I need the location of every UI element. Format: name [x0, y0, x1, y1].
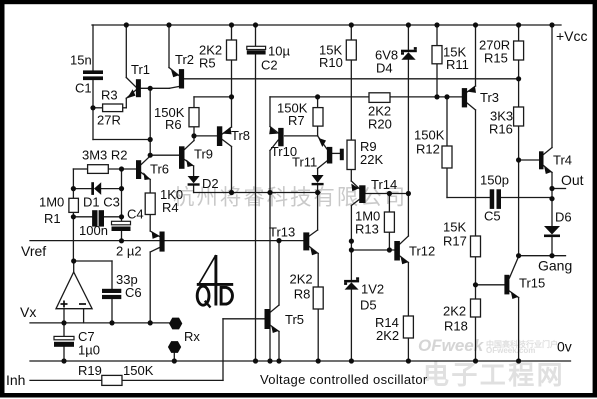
svg-text:Tr4: Tr4: [553, 153, 572, 168]
svg-text:Tr8: Tr8: [231, 128, 250, 143]
svg-text:Rx: Rx: [184, 329, 200, 344]
svg-text:2K2: 2K2: [290, 272, 313, 287]
svg-text:电子工程网: 电子工程网: [423, 360, 565, 390]
svg-text:C1: C1: [75, 81, 92, 96]
svg-text:R10: R10: [319, 55, 343, 70]
svg-text:D6: D6: [555, 210, 572, 225]
svg-text:R7: R7: [288, 113, 305, 128]
svg-text:27R: 27R: [97, 113, 121, 128]
svg-text:Tr3: Tr3: [480, 90, 499, 105]
svg-text:150K: 150K: [414, 128, 445, 143]
svg-text:C2: C2: [261, 58, 278, 73]
svg-text:R11: R11: [446, 57, 469, 72]
svg-text:15K: 15K: [443, 220, 466, 235]
svg-text:2K2: 2K2: [443, 304, 466, 319]
svg-text:Vref: Vref: [21, 243, 46, 259]
svg-text:R13: R13: [355, 222, 379, 237]
svg-text:R4: R4: [162, 200, 179, 215]
svg-text:2K2: 2K2: [376, 328, 399, 343]
svg-text:R20: R20: [368, 117, 392, 132]
svg-text:Tr5: Tr5: [285, 312, 304, 327]
svg-text:R12: R12: [416, 142, 440, 157]
svg-text:Tr1: Tr1: [131, 62, 150, 77]
svg-text:Gang: Gang: [538, 258, 572, 274]
svg-text:OFweek: OFweek: [418, 336, 485, 355]
svg-text:1M0: 1M0: [39, 195, 64, 210]
svg-text:R17: R17: [443, 234, 467, 249]
svg-text:Tr12: Tr12: [409, 244, 435, 259]
svg-text:D1 C3: D1 C3: [83, 195, 120, 210]
svg-text:Tr15: Tr15: [519, 276, 545, 291]
svg-text:1µ0: 1µ0: [78, 343, 100, 358]
svg-text:Voltage controlled oscillator: Voltage controlled oscillator: [260, 372, 428, 387]
svg-text:R19: R19: [78, 363, 102, 378]
svg-text:R6: R6: [165, 117, 182, 132]
svg-text:Out: Out: [561, 172, 584, 188]
svg-text:R15: R15: [484, 51, 508, 66]
svg-text:100n: 100n: [79, 223, 108, 238]
svg-text:Tr11: Tr11: [292, 155, 317, 170]
svg-text:150K: 150K: [123, 363, 154, 378]
svg-text:Inh: Inh: [6, 372, 25, 388]
svg-text:Vx: Vx: [20, 304, 36, 320]
svg-text:OFweek.com: OFweek.com: [486, 346, 535, 355]
svg-text:10µ: 10µ: [268, 44, 290, 59]
svg-text:R16: R16: [489, 122, 513, 137]
svg-text:D5: D5: [360, 298, 377, 313]
svg-text:1V2: 1V2: [361, 282, 384, 297]
svg-text:R1: R1: [44, 211, 61, 226]
svg-text:R8: R8: [294, 287, 311, 302]
svg-text:D4: D4: [376, 61, 393, 76]
svg-text:R5: R5: [199, 56, 216, 71]
svg-text:C4: C4: [127, 207, 144, 222]
svg-text:R3: R3: [101, 88, 118, 103]
svg-text:150p: 150p: [480, 173, 509, 188]
svg-text:2 µ2: 2 µ2: [116, 244, 142, 259]
svg-text:D2: D2: [202, 176, 219, 191]
svg-text:+Vcc: +Vcc: [556, 28, 588, 44]
svg-text:C6: C6: [125, 285, 142, 300]
svg-text:C5: C5: [484, 209, 501, 224]
svg-text:Tr14: Tr14: [371, 177, 397, 192]
svg-text:Tr2: Tr2: [175, 52, 194, 67]
svg-text:Tr6: Tr6: [150, 162, 169, 177]
svg-text:15n: 15n: [70, 53, 92, 68]
svg-text:0v: 0v: [557, 339, 572, 355]
svg-text:R18: R18: [444, 319, 468, 334]
svg-text:22K: 22K: [360, 152, 383, 167]
svg-text:Tr13: Tr13: [269, 225, 295, 240]
svg-text:3M3 R2: 3M3 R2: [82, 148, 128, 163]
svg-text:Tr9: Tr9: [194, 147, 213, 162]
